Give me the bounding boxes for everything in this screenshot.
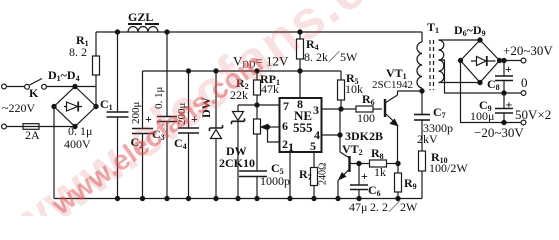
capacitor C5 bbox=[256, 134, 258, 171]
wire K line bbox=[6, 86, 25, 88]
wire center tap to 0 rail bbox=[439, 60, 523, 93]
transistor VT1 2SC1942 bbox=[384, 99, 386, 117]
svg-text:2CK10: 2CK10 bbox=[219, 156, 255, 170]
transistor VT2 3DK2B bbox=[348, 156, 350, 172]
capacitor C8 bbox=[503, 61, 505, 77]
svg-text:0: 0 bbox=[521, 75, 528, 90]
resistor R6 bbox=[356, 106, 373, 112]
svg-text:~220V: ~220V bbox=[2, 101, 35, 115]
svg-text:100μ: 100μ bbox=[470, 109, 494, 123]
resistor R1 bbox=[95, 32, 97, 56]
terminal input bottom bbox=[2, 124, 7, 129]
svg-text:+: + bbox=[506, 98, 513, 112]
op-amp U1 NE555 box bbox=[280, 98, 322, 152]
capacitor C1 bbox=[117, 32, 119, 112]
terminal minus bbox=[521, 120, 526, 125]
top rail bbox=[96, 31, 422, 33]
transformer T1 secondary bbox=[439, 40, 444, 83]
resistor R7 bbox=[313, 152, 315, 168]
bottom rail bbox=[54, 198, 422, 200]
resistor R5 bbox=[340, 71, 342, 80]
svg-text:6: 6 bbox=[282, 119, 288, 133]
wire secondary top to bridge bbox=[439, 39, 481, 41]
terminal input top bbox=[2, 84, 7, 89]
switch K bbox=[25, 84, 30, 89]
svg-text:2. 2／2W: 2. 2／2W bbox=[370, 200, 418, 214]
capacitor C7 bbox=[421, 91, 423, 115]
zener DW 2CK10 bbox=[237, 105, 239, 112]
svg-text:K: K bbox=[29, 86, 39, 100]
capacitor C2 bbox=[142, 71, 144, 129]
resistor R2 bbox=[256, 71, 258, 80]
svg-text:1: 1 bbox=[288, 140, 294, 154]
svg-text:2kV: 2kV bbox=[417, 132, 438, 146]
bridge D6-D9 bbox=[461, 40, 500, 83]
transformer T1 core bbox=[429, 40, 431, 90]
resistor R9 bbox=[397, 164, 399, 174]
svg-text:−20~30V: −20~30V bbox=[474, 125, 524, 140]
wire node A bbox=[238, 104, 285, 106]
transformer T1 primary bbox=[421, 32, 423, 42]
wire pin8 bbox=[299, 71, 301, 98]
svg-text:D1~D4: D1~D4 bbox=[48, 68, 80, 83]
svg-text:0. 1μ: 0. 1μ bbox=[68, 124, 92, 138]
svg-text:3DK2B: 3DK2B bbox=[345, 129, 383, 143]
svg-text:100: 100 bbox=[357, 111, 375, 125]
svg-text:47μ: 47μ bbox=[349, 200, 367, 214]
bridge D1-D4 bbox=[54, 87, 96, 127]
svg-text:8: 8 bbox=[297, 97, 303, 111]
capacitor C6 bbox=[357, 161, 361, 165]
capacitor C3 bbox=[166, 32, 168, 117]
svg-text:2A: 2A bbox=[25, 128, 40, 142]
svg-text:10k: 10k bbox=[345, 82, 363, 96]
resistor R4 bbox=[299, 32, 301, 39]
svg-text:1000p: 1000p bbox=[260, 174, 290, 188]
svg-text:1k: 1k bbox=[374, 165, 386, 179]
wire bridge minus down bbox=[53, 107, 55, 199]
wire pin3 bbox=[322, 108, 357, 110]
svg-text:3: 3 bbox=[313, 103, 319, 117]
watermark bbox=[0, 0, 446, 240]
wire top vertex to R1 column bbox=[75, 86, 96, 88]
capacitor C9 bbox=[503, 93, 505, 109]
wire pin1 bbox=[289, 152, 291, 199]
resistor R10 bbox=[419, 151, 426, 171]
wire pin4 bbox=[322, 134, 341, 136]
svg-text:50V×2: 50V×2 bbox=[515, 107, 551, 122]
terminal plus bbox=[521, 58, 526, 63]
wire minus vertex down bbox=[461, 61, 523, 123]
wire fuse line bbox=[6, 126, 75, 128]
svg-text:+: + bbox=[361, 169, 368, 183]
svg-text:555: 555 bbox=[293, 120, 313, 135]
resistor R8 bbox=[370, 160, 387, 167]
svg-text:240Ω: 240Ω bbox=[318, 163, 329, 185]
svg-text:+20~30V: +20~30V bbox=[503, 43, 553, 58]
terminal 0 bbox=[521, 91, 526, 96]
capacitor C4 bbox=[188, 71, 190, 128]
potentiometer RP1 bbox=[254, 119, 261, 134]
wire plus output bbox=[500, 60, 523, 62]
zener DW bbox=[215, 71, 217, 128]
svg-text:+: + bbox=[505, 62, 512, 76]
svg-text:7: 7 bbox=[283, 99, 289, 113]
svg-text:100/2W: 100/2W bbox=[429, 161, 468, 175]
svg-text:GZL: GZL bbox=[128, 10, 153, 24]
svg-text:8. 2: 8. 2 bbox=[69, 45, 87, 59]
svg-text:4: 4 bbox=[314, 128, 320, 142]
VDD bus bbox=[143, 70, 342, 72]
svg-text:D6~D9: D6~D9 bbox=[454, 23, 486, 38]
wire secondary bottom to bridge bbox=[439, 82, 481, 84]
GZL choke bbox=[128, 27, 158, 33]
wire K to bridge bbox=[46, 86, 75, 88]
fuse 2A bbox=[23, 124, 39, 130]
svg-text:2SC1942: 2SC1942 bbox=[372, 79, 413, 91]
